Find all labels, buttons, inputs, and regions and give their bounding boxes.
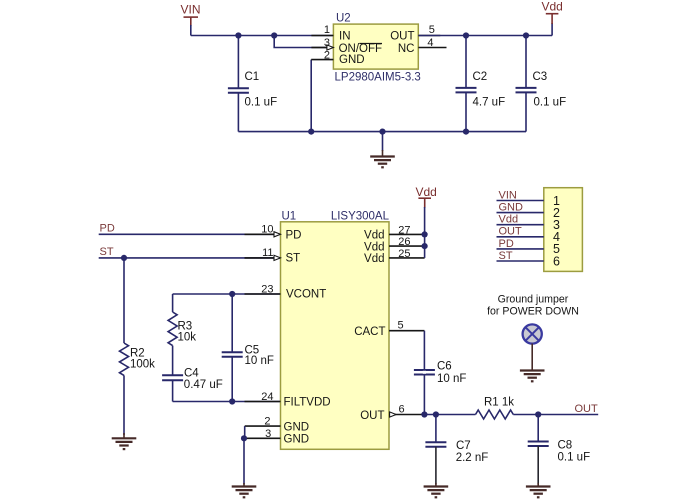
pin 5 CACT — [354, 320, 424, 339]
resistor R2 — [120, 258, 156, 435]
svg-text:VIN: VIN — [499, 189, 517, 201]
pin 3 GND — [244, 428, 309, 445]
pin 4 — [497, 226, 561, 244]
svg-text:GND: GND — [499, 202, 524, 214]
svg-text:R1 1k: R1 1k — [484, 397, 514, 409]
svg-text:C7: C7 — [456, 440, 471, 452]
pin 5 OUT — [390, 24, 440, 43]
svg-text:LISY300AL: LISY300AL — [331, 210, 390, 222]
svg-text:OUT: OUT — [360, 410, 384, 422]
node ST R2 junction — [121, 255, 127, 261]
capacitor C6 — [414, 360, 467, 385]
svg-text:26: 26 — [398, 236, 410, 248]
svg-text:LP2980AIM5-3.3: LP2980AIM5-3.3 — [335, 72, 421, 84]
pin 11 ST — [245, 247, 301, 264]
svg-text:10: 10 — [261, 224, 273, 236]
svg-text:0.1 uF: 0.1 uF — [534, 97, 567, 109]
svg-text:Vdd: Vdd — [499, 214, 519, 226]
svg-text:IN: IN — [339, 31, 351, 43]
power flag Vdd above U1 — [416, 185, 437, 208]
svg-text:VCONT: VCONT — [286, 289, 326, 301]
power flag VIN — [181, 3, 201, 27]
svg-text:0.47 uF: 0.47 uF — [184, 379, 223, 391]
pin 10 PD — [245, 224, 302, 242]
pin 24 FILTVDD — [245, 391, 331, 409]
wire Vdd to pins 27 26 25 — [424, 207, 426, 258]
svg-text:PD: PD — [286, 230, 302, 242]
pin 4 NC — [398, 37, 447, 55]
ground below C7 — [424, 483, 449, 497]
pin 2 GND — [311, 50, 364, 66]
capacitor C4 — [162, 367, 223, 401]
pin 3 — [497, 214, 561, 232]
svg-text:C2: C2 — [473, 71, 488, 83]
wire jumper to ground — [531, 344, 533, 371]
resistor R1 — [476, 397, 515, 420]
wire R1 to OUT label — [513, 414, 598, 416]
svg-text:Ground jumper: Ground jumper — [498, 294, 569, 306]
wire U1 GND pins drop — [244, 426, 246, 438]
svg-text:1: 1 — [324, 24, 330, 36]
svg-text:10k: 10k — [178, 332, 197, 344]
node C7 junction — [433, 411, 439, 417]
ground below C8 — [526, 483, 551, 497]
svg-text:PD: PD — [499, 238, 514, 250]
svg-text:OUT: OUT — [499, 226, 523, 238]
wire top rail VIN to U2 pin 1 — [191, 35, 334, 37]
resistor R3 — [168, 294, 196, 375]
svg-text:4.7 uF: 4.7 uF — [473, 97, 506, 109]
node OUT C6 junction — [421, 411, 427, 417]
svg-text:NC: NC — [398, 43, 415, 55]
capacitor C5 — [222, 294, 274, 402]
svg-text:PD: PD — [100, 222, 115, 234]
svg-text:U2: U2 — [336, 13, 351, 25]
svg-text:3: 3 — [265, 428, 271, 440]
svg-text:C6: C6 — [437, 360, 452, 372]
capacitor C2 — [456, 36, 506, 132]
svg-text:C4: C4 — [184, 367, 199, 379]
jumper label — [487, 294, 579, 318]
svg-text:10 nF: 10 nF — [245, 355, 274, 367]
svg-text:Vdd: Vdd — [416, 185, 437, 199]
pin 6 OUT — [360, 404, 424, 422]
pin 23 VCONT — [245, 283, 327, 300]
svg-text:C8: C8 — [558, 440, 573, 452]
svg-text:Vdd: Vdd — [364, 253, 384, 265]
svg-text:23: 23 — [261, 283, 273, 295]
pin 1 — [497, 189, 561, 207]
wire U2 pin2 GND drop — [310, 60, 312, 132]
svg-text:VIN: VIN — [181, 3, 201, 17]
wire VIN stub — [190, 25, 192, 36]
node C5 top junction — [229, 291, 235, 297]
svg-text:3: 3 — [324, 37, 330, 49]
pin 26 Vdd — [364, 236, 425, 253]
wire ON/OFF branch — [274, 36, 333, 48]
svg-text:for POWER DOWN: for POWER DOWN — [487, 306, 579, 318]
node GND drop junction — [308, 129, 314, 135]
node pin27 junction — [422, 231, 428, 237]
pin 2 — [497, 202, 561, 220]
svg-text:C1: C1 — [245, 71, 260, 83]
svg-text:2: 2 — [324, 50, 330, 62]
node C2 bottom junction — [463, 129, 469, 135]
connector J1 body — [544, 188, 583, 272]
wire ST — [99, 257, 281, 259]
svg-text:CACT: CACT — [354, 326, 385, 338]
pin 1 IN — [311, 24, 350, 43]
pin 3 ON/OFF — [311, 37, 382, 55]
svg-text:24: 24 — [261, 391, 273, 403]
wire U2 OUT to Vdd — [418, 35, 552, 37]
capacitor C8 — [528, 415, 590, 485]
node ON/OFF branch junction — [271, 32, 277, 38]
node C2 top junction — [463, 32, 469, 38]
jumper JP1 — [523, 324, 542, 343]
node C8 junction — [535, 411, 541, 417]
ground below jumper — [520, 371, 545, 382]
node pin26 junction — [422, 243, 428, 249]
svg-text:Vdd: Vdd — [364, 241, 384, 253]
pin 6 — [497, 250, 561, 268]
svg-text:ST: ST — [499, 250, 513, 262]
wire CACT to OUT rail — [423, 331, 425, 415]
svg-text:11: 11 — [262, 247, 273, 259]
node C3 top junction — [523, 32, 529, 38]
svg-text:C3: C3 — [533, 71, 548, 83]
svg-text:5: 5 — [429, 24, 435, 36]
wire PD — [99, 233, 281, 235]
svg-text:Vdd: Vdd — [364, 230, 384, 242]
ground below U1 — [232, 483, 257, 497]
pin 27 Vdd — [364, 224, 425, 241]
wire VCONT rail — [173, 293, 281, 295]
pin 5 — [497, 238, 561, 256]
IC U1 body — [281, 210, 390, 449]
svg-text:U1: U1 — [282, 210, 297, 222]
svg-text:GND: GND — [284, 434, 310, 446]
svg-text:Vdd: Vdd — [542, 0, 563, 14]
svg-text:ST: ST — [100, 246, 114, 258]
svg-text:27: 27 — [398, 224, 410, 236]
svg-text:2: 2 — [264, 416, 270, 428]
power flag Vdd top right — [542, 0, 563, 35]
svg-text:OUT: OUT — [390, 31, 414, 43]
node ground tap junction — [379, 129, 385, 135]
svg-text:6: 6 — [553, 254, 560, 268]
node GND pin3 junction — [241, 435, 247, 441]
wire FILTVDD rail — [173, 401, 281, 403]
svg-text:10 nF: 10 nF — [437, 373, 466, 385]
svg-text:25: 25 — [398, 248, 410, 260]
svg-text:100k: 100k — [130, 359, 155, 371]
node C1 top junction — [235, 32, 241, 38]
svg-text:4: 4 — [427, 37, 433, 49]
capacitor C7 — [425, 415, 488, 485]
capacitor C1 — [228, 36, 277, 132]
svg-text:6: 6 — [399, 404, 405, 416]
svg-text:GND: GND — [284, 421, 310, 433]
svg-text:ST: ST — [286, 253, 301, 265]
svg-text:2.2 nF: 2.2 nF — [456, 452, 489, 464]
op-amp U2 body — [333, 13, 420, 84]
node C5 bottom junction — [229, 398, 235, 404]
svg-text:0.1 uF: 0.1 uF — [558, 452, 591, 464]
svg-text:0.1 uF: 0.1 uF — [245, 97, 278, 109]
ground below R2 — [112, 433, 137, 449]
wire bottom rail of regulator section — [238, 131, 526, 133]
ground below regulator rail — [370, 132, 395, 168]
pin 25 Vdd — [364, 248, 425, 265]
svg-text:5: 5 — [398, 320, 404, 332]
svg-text:FILTVDD: FILTVDD — [284, 397, 331, 409]
capacitor C3 — [516, 36, 567, 132]
wire GND drop to ground — [243, 438, 245, 484]
pin 2 GND — [245, 416, 309, 434]
wire OUT rail — [424, 414, 475, 416]
svg-text:OUT: OUT — [575, 403, 599, 415]
svg-text:GND: GND — [339, 54, 365, 66]
